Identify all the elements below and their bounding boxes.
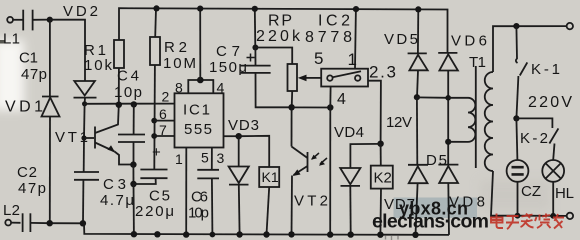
junction C7 at rail <box>252 6 258 12</box>
wire down to bottom rail <box>133 184 135 234</box>
watermark chinese characters <box>491 214 564 230</box>
transformer T1 core <box>475 66 477 168</box>
switch K-1 blade <box>520 62 528 75</box>
svg-text:10k: 10k <box>84 57 113 74</box>
svg-text:C5: C5 <box>149 188 170 205</box>
wire VD5 from rail <box>417 9 419 53</box>
wire K2 node to VD4 <box>350 144 380 168</box>
junction pins 8/4 <box>197 77 204 84</box>
wire HL bottom <box>552 182 554 216</box>
svg-text:VT1: VT1 <box>55 129 88 146</box>
relay K1 box <box>259 167 279 187</box>
diode VD2 <box>74 81 95 96</box>
svg-text:47p: 47p <box>21 66 47 83</box>
capacitor C4 <box>118 134 145 136</box>
capacitor C1 <box>22 10 24 31</box>
svg-text:10M: 10M <box>163 55 196 72</box>
socket CZ <box>507 160 529 182</box>
svg-text:CZ: CZ <box>521 183 541 200</box>
top rail <box>119 8 448 52</box>
svg-text:2: 2 <box>162 89 170 105</box>
svg-text:K2: K2 <box>374 170 392 187</box>
bottom right wire <box>518 215 567 217</box>
junction IC2 pin 4 <box>327 104 333 110</box>
wire L1 to C1 <box>13 19 23 21</box>
resistor R2 <box>150 37 160 65</box>
junction 12V node <box>414 94 420 100</box>
capacitor C7 plus sign <box>247 54 255 62</box>
svg-text:T1: T1 <box>469 54 486 71</box>
terminal L1 <box>7 17 13 23</box>
svg-text:5: 5 <box>201 150 209 166</box>
wire C2 to left rail <box>30 222 49 224</box>
transistor VT1 <box>94 127 96 149</box>
wire pin 4 stub up <box>329 87 331 108</box>
wire C4 top <box>133 104 135 134</box>
svg-text:VD3: VD3 <box>228 117 259 134</box>
svg-text:IC1: IC1 <box>183 102 210 119</box>
svg-text:4: 4 <box>217 80 225 96</box>
svg-text:L1: L1 <box>3 31 20 48</box>
lamp HL <box>542 160 564 182</box>
junction C5 rail <box>154 231 160 237</box>
wire IC1 supply to rail <box>199 9 201 80</box>
wire split to C7 <box>254 48 256 66</box>
junction K-1 top <box>513 23 519 29</box>
wire RP bottom <box>291 91 294 107</box>
wire node B down to VT1 base node <box>83 104 86 138</box>
IC2 switch blade <box>333 71 361 77</box>
wire 12V node to VD6 wire <box>417 96 448 98</box>
wire pin 3 out <box>224 135 239 137</box>
svg-text:K-2: K-2 <box>520 130 548 147</box>
junction C5 jog <box>130 181 136 187</box>
svg-text:6: 6 <box>159 106 167 122</box>
IC2 box <box>321 69 368 87</box>
transistor VT2 <box>307 152 309 172</box>
wire R2 down through pins 6,7 to C5 <box>153 65 156 169</box>
junction VD7 rail <box>412 232 418 238</box>
junction IC1 at rail <box>197 6 203 12</box>
node VT1 base junction <box>81 135 86 140</box>
potentiometer RP <box>288 64 298 91</box>
svg-text:1: 1 <box>175 151 183 167</box>
junction K2 rail <box>377 232 383 238</box>
watermark highlight box <box>394 198 478 219</box>
capacitor C2 <box>22 213 24 232</box>
svg-text:+: + <box>152 144 161 161</box>
diode VD5 <box>408 52 427 54</box>
junction pin4 rail <box>327 231 333 237</box>
wire split to RP top <box>255 48 292 65</box>
junction C4 top <box>131 101 137 107</box>
wire VD5 to 12V node <box>417 70 418 97</box>
wire K2 top <box>380 144 382 166</box>
wire node to pin4 node <box>292 106 331 108</box>
svg-text:220V: 220V <box>528 94 572 111</box>
junction K1 rail <box>263 231 269 237</box>
junction RP/C7/VT2/pin4 node <box>288 104 294 110</box>
wire VD3 to rail <box>238 185 241 235</box>
wire C3 to bottom rail <box>82 180 84 223</box>
RP wiper arrow <box>306 77 322 79</box>
wire node to CZ <box>516 118 517 159</box>
svg-text:8: 8 <box>175 80 183 96</box>
junction emitter/C4 <box>130 161 136 167</box>
junction T1 bottom <box>445 139 451 145</box>
junction CZ rail <box>515 213 521 219</box>
junction IC2 pin1 rail <box>353 6 359 12</box>
junction VD5 rail <box>415 6 421 12</box>
transformer T1 primary bottom lead <box>448 141 468 143</box>
wire node A down to VD1 <box>49 20 51 97</box>
diode VD3 <box>229 167 249 184</box>
wire CZ bottom <box>517 182 519 216</box>
wire VT2 collector <box>291 107 293 146</box>
wire C1 to node A <box>33 19 50 21</box>
wire pin 5 to C6 <box>211 148 213 170</box>
junction T1 top <box>445 95 451 101</box>
svg-text:7: 7 <box>159 122 167 138</box>
wire VD1 to bottom rail <box>49 117 51 224</box>
VT2 photo arrows <box>312 153 327 164</box>
wire IC2 pin 1 to rail <box>354 9 357 69</box>
svg-text:VD5: VD5 <box>384 31 418 48</box>
junction at rail below C4 <box>131 231 137 237</box>
wire C5 bottom jog <box>134 178 156 184</box>
svg-text:VD2: VD2 <box>63 3 98 20</box>
wire K2 to rail <box>379 189 382 235</box>
svg-text:10p: 10p <box>188 205 209 222</box>
svg-text:12V: 12V <box>386 114 412 131</box>
wire C4 bottom <box>133 142 135 165</box>
capacitor C3 <box>74 171 99 173</box>
svg-text:VD1: VD1 <box>5 99 43 116</box>
resistor R1 <box>114 40 124 68</box>
wire 12V node down to VD7 <box>416 97 418 165</box>
junction K2 node <box>377 141 383 147</box>
wire K-1 upper <box>516 26 518 63</box>
svg-text:C6: C6 <box>191 189 208 206</box>
svg-text:VD4: VD4 <box>334 124 364 141</box>
junction pin1 rail <box>183 231 189 237</box>
svg-text:L2: L2 <box>3 202 20 219</box>
transformer T1 primary top lead <box>448 97 468 99</box>
svg-text:elecfans·com: elecfans·com <box>372 211 489 233</box>
wire node to K-2 <box>516 118 552 128</box>
node A junction <box>47 17 53 23</box>
IC1 555 box <box>175 93 224 147</box>
svg-text:3: 3 <box>217 150 225 166</box>
terminal AC top <box>567 23 573 29</box>
svg-text:47p: 47p <box>18 180 46 197</box>
transformer T1 primary winding <box>468 98 475 142</box>
diode VD6 <box>438 52 457 54</box>
svg-text:K-1: K-1 <box>531 61 560 78</box>
wire C4 node to C5 node <box>132 165 134 184</box>
IC2 switch contacts <box>327 75 332 80</box>
wire pin3 node down to VD3 <box>238 136 240 166</box>
wire VT2 emitter to rail <box>291 176 294 235</box>
wire VD4 to rail <box>349 186 351 235</box>
wire pin 2 of IC1 <box>85 103 175 105</box>
wire C7 top from rail <box>254 9 257 48</box>
transformer T1 secondary winding <box>485 72 493 171</box>
wire C7 bottom <box>256 73 292 107</box>
wire pin 6 stub <box>154 120 174 122</box>
wire K1 to rail <box>267 187 270 235</box>
junction C7/RP split <box>252 45 258 51</box>
svg-text:220μ: 220μ <box>135 203 174 220</box>
wire L2 to C2 <box>11 222 20 224</box>
wire VT1 base lead <box>84 137 94 139</box>
scan speck top-left edge <box>0 40 5 44</box>
svg-text:VD6: VD6 <box>451 33 487 50</box>
wire C6 to rail <box>211 178 214 234</box>
wire secondary top <box>493 26 567 72</box>
wire node A to VD2 branch <box>50 20 85 81</box>
svg-text:4.7μ: 4.7μ <box>100 192 134 209</box>
junction C3 at rail <box>80 220 86 226</box>
wire R2 top to rail <box>154 8 157 37</box>
wire pin 7 stub <box>154 135 174 137</box>
junction VD3 rail <box>236 231 242 237</box>
junction HL rail <box>550 213 556 219</box>
wire pin 4 to bottom rail <box>329 108 331 235</box>
junction VT2 rail <box>288 231 294 237</box>
capacitor C5 <box>140 169 167 171</box>
capacitor C6 <box>197 169 219 171</box>
svg-text:1: 1 <box>348 50 357 69</box>
svg-text:10p: 10p <box>114 84 142 101</box>
svg-text:K1: K1 <box>262 169 279 185</box>
node pin3 junction <box>236 133 242 139</box>
svg-text:555: 555 <box>184 121 212 138</box>
diode VD1 <box>42 96 59 98</box>
wire pin 8 stub <box>188 80 213 93</box>
wire K-2 to HL <box>553 144 554 160</box>
junction VD1 at rail <box>47 220 53 226</box>
wire secondary bottom <box>491 171 518 216</box>
svg-text:VT2: VT2 <box>294 193 328 210</box>
svg-text:HL: HL <box>555 185 574 202</box>
wire pin 1 to rail <box>185 148 187 235</box>
wire R1 to pin2 wire <box>118 68 120 105</box>
svg-text:4: 4 <box>337 91 346 108</box>
wire IC2 pins 2.3 out <box>368 81 381 144</box>
switch K-2 blade <box>549 128 558 143</box>
wire base node down to C3 <box>83 138 85 172</box>
relay K2 box <box>371 166 393 189</box>
wire VD8 to rail end <box>447 183 450 235</box>
terminal AC bottom <box>567 213 573 219</box>
junction R2 at top rail <box>153 5 159 11</box>
junction K-1 bottom node <box>513 115 519 121</box>
rail step down <box>84 223 449 235</box>
svg-text:C1: C1 <box>19 50 38 67</box>
wire VD7 to rail <box>416 183 418 235</box>
wire pin3 node to K1 <box>239 136 270 167</box>
wire VD2 to node B <box>84 98 86 104</box>
left bottom rail <box>50 222 84 224</box>
node B junction <box>82 101 87 106</box>
svg-text:150μ: 150μ <box>209 59 247 76</box>
terminal L2 <box>5 220 11 226</box>
diode VD8 <box>438 164 458 166</box>
wire K-1 lower <box>516 76 518 118</box>
diode VD7 <box>408 164 428 166</box>
capacitor C7 <box>241 65 271 67</box>
stray marks below rail <box>386 236 399 240</box>
junction VD4 rail <box>348 231 354 237</box>
svg-text:C2: C2 <box>17 164 37 181</box>
svg-text:5: 5 <box>314 49 323 68</box>
junction R1/VT1 collector <box>116 102 122 108</box>
svg-text:D5: D5 <box>426 152 447 169</box>
wire VD6 down <box>447 71 449 165</box>
junction C6 rail <box>210 232 216 238</box>
junction pin 7 <box>151 133 157 139</box>
diode VD4 <box>340 168 360 184</box>
junction pin 6 <box>151 118 157 124</box>
svg-text:2.3: 2.3 <box>369 63 396 82</box>
